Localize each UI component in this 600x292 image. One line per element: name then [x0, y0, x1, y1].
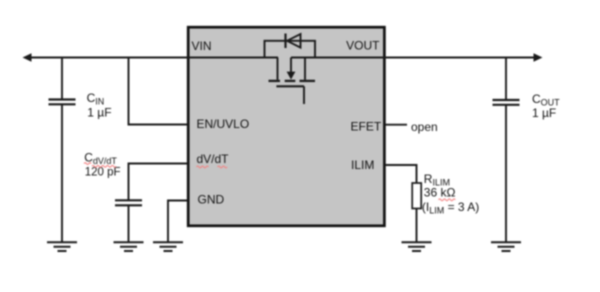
svg-text:dV/dT: dV/dT [197, 152, 230, 166]
svg-text:GND: GND [198, 193, 225, 207]
svg-text:EN/UVLO: EN/UVLO [197, 117, 250, 131]
svg-text:1 µF: 1 µF [532, 106, 556, 120]
svg-text:(ILIM = 3 A): (ILIM = 3 A) [422, 200, 479, 216]
svg-text:EFET: EFET [351, 120, 382, 134]
svg-text:VIN: VIN [192, 39, 212, 53]
svg-text:1 µF: 1 µF [87, 106, 111, 120]
svg-text:open: open [411, 120, 438, 134]
svg-text:CIN: CIN [87, 91, 105, 107]
svg-text:VOUT: VOUT [346, 39, 380, 53]
svg-text:36 kΩ: 36 kΩ [424, 186, 456, 200]
svg-text:120 pF: 120 pF [85, 167, 121, 179]
svg-text:ILIM: ILIM [351, 158, 374, 172]
